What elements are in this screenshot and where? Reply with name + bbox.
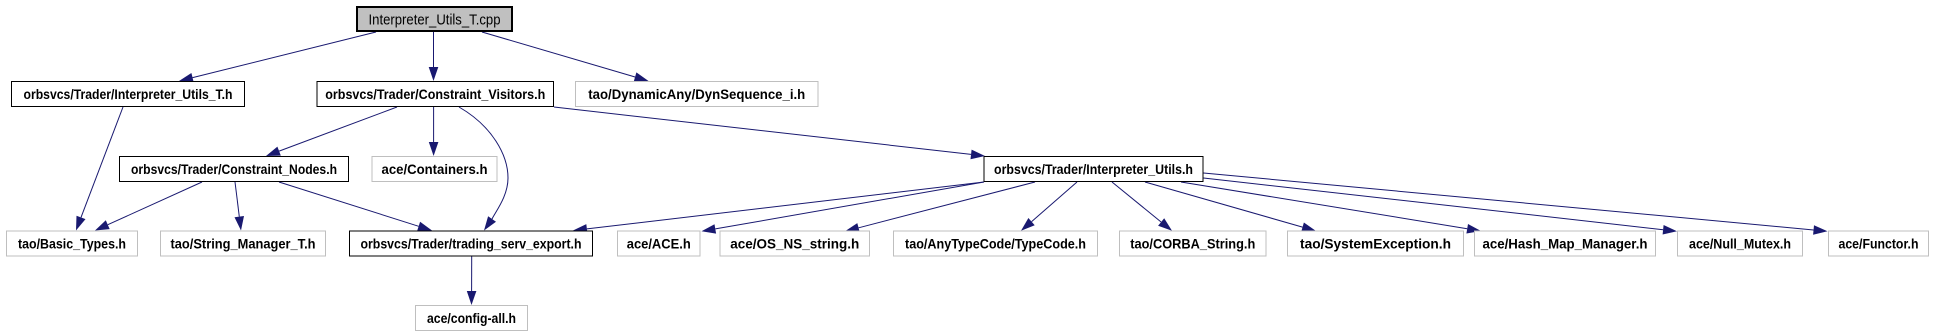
svg-text:tao/DynamicAny/DynSequence_i.h: tao/DynamicAny/DynSequence_i.h (588, 86, 805, 102)
svg-text:tao/String_Manager_T.h: tao/String_Manager_T.h (171, 235, 316, 251)
node ace/config-all.h (416, 306, 528, 331)
node orbsvcs/Trader/trading_serv_export.h (350, 231, 593, 256)
edge Interpreter_Utils.h->trading_serv_export.h (573, 182, 984, 234)
edge Constraint_Visitors.h->trading_serv_export.h (459, 107, 508, 231)
node ace/ACE.h (618, 231, 701, 256)
node tao/AnyTypeCode/TypeCode.h (894, 231, 1098, 256)
node Interpreter_Utils_T.cpp (357, 7, 512, 31)
svg-text:ace/Containers.h: ace/Containers.h (382, 161, 488, 177)
edge Constraint_Visitors.h->Constraint_Nodes.h (266, 107, 397, 156)
svg-text:tao/Basic_Types.h: tao/Basic_Types.h (18, 235, 126, 251)
svg-text:orbsvcs/Trader/Constraint_Visi: orbsvcs/Trader/Constraint_Visitors.h (325, 86, 545, 102)
edge Constraint_Nodes.h->trading_serv_export.h (279, 182, 432, 231)
node tao/CORBA_String.h (1120, 231, 1267, 256)
svg-text:ace/Null_Mutex.h: ace/Null_Mutex.h (1689, 235, 1791, 251)
node tao/SystemException.h (1288, 231, 1464, 256)
edge Interpreter_Utils.h->Null_Mutex.h (1204, 178, 1678, 235)
svg-text:orbsvcs/Trader/Interpreter_Uti: orbsvcs/Trader/Interpreter_Utils.h (994, 161, 1193, 177)
edge Constraint_Visitors.h->Interpreter_Utils.h (554, 107, 985, 159)
svg-text:ace/Functor.h: ace/Functor.h (1839, 235, 1919, 251)
edge Interpreter_Utils.h->ACE.h (702, 182, 985, 234)
node orbsvcs/Trader/Constraint_Nodes.h (120, 157, 349, 182)
edge cpp->Constraint_Visitors.h (429, 32, 439, 81)
svg-text:ace/config-all.h: ace/config-all.h (427, 310, 516, 326)
svg-text:orbsvcs/Trader/Interpreter_Uti: orbsvcs/Trader/Interpreter_Utils_T.h (24, 86, 233, 102)
edge Interpreter_Utils.h->CORBA_String.h (1112, 182, 1172, 231)
node tao/Basic_Types.h (7, 231, 138, 256)
node orbsvcs/Trader/Interpreter_Utils_T.h (12, 82, 245, 107)
edge Constraint_Visitors.h->Containers.h (429, 107, 439, 156)
edge Interpreter_Utils.h->Functor.h (1204, 173, 1828, 235)
svg-text:orbsvcs/Trader/Constraint_Node: orbsvcs/Trader/Constraint_Nodes.h (131, 161, 337, 177)
edge Constraint_Nodes.h->Basic_Types.h (95, 182, 202, 231)
svg-text:tao/CORBA_String.h: tao/CORBA_String.h (1130, 235, 1255, 251)
edge cpp->Interpreter_Utils_T.h (179, 32, 376, 82)
node orbsvcs/Trader/Constraint_Visitors.h (317, 82, 554, 107)
edge trading_serv_export.h->config-all.h (467, 257, 477, 306)
node ace/Functor.h (1829, 231, 1929, 256)
node tao/DynamicAny/DynSequence_i.h (576, 82, 819, 107)
svg-text:ace/OS_NS_string.h: ace/OS_NS_string.h (730, 235, 859, 251)
edge Interpreter_Utils.h->TypeCode.h (1021, 182, 1077, 231)
node ace/Containers.h (372, 157, 497, 182)
node ace/Hash_Map_Manager.h (1475, 231, 1656, 256)
svg-text:ace/ACE.h: ace/ACE.h (627, 235, 691, 251)
svg-text:ace/Hash_Map_Manager.h: ace/Hash_Map_Manager.h (1483, 235, 1648, 251)
edge Constraint_Nodes.h->String_Manager_T.h (235, 182, 245, 231)
edge cpp->DynSequence_i.h (482, 32, 649, 82)
edge Interpreter_Utils.h->OS_NS_string.h (845, 182, 1035, 232)
node tao/String_Manager_T.h (161, 231, 326, 256)
node orbsvcs/Trader/Interpreter_Utils.h (984, 157, 1203, 182)
edge Interpreter_Utils_T.h->Basic_Types.h (76, 107, 123, 231)
svg-text:tao/SystemException.h: tao/SystemException.h (1300, 235, 1451, 251)
edge Interpreter_Utils.h->SystemException.h (1145, 182, 1316, 232)
svg-text:tao/AnyTypeCode/TypeCode.h: tao/AnyTypeCode/TypeCode.h (905, 235, 1086, 251)
edge Interpreter_Utils.h->Hash_Map_Manager.h (1181, 182, 1481, 234)
node ace/OS_NS_string.h (720, 231, 870, 256)
svg-text:orbsvcs/Trader/trading_serv_ex: orbsvcs/Trader/trading_serv_export.h (361, 235, 582, 251)
node ace/Null_Mutex.h (1678, 231, 1803, 256)
svg-text:Interpreter_Utils_T.cpp: Interpreter_Utils_T.cpp (369, 13, 501, 29)
